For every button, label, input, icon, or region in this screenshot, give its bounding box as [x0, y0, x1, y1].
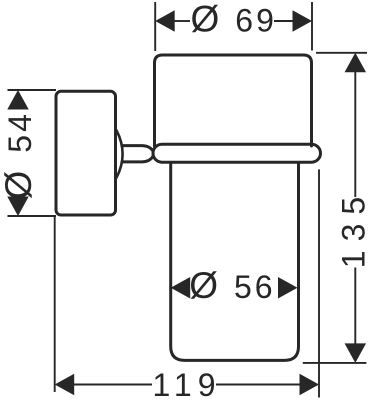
arrow Ø54 bottom	[7, 197, 29, 217]
wall plate	[56, 91, 116, 215]
stem flange arc	[117, 130, 123, 177]
arrow Ø56 left	[171, 277, 191, 299]
extension line right of Ø69	[311, 2, 313, 51]
tumbler upper section (Ø69) outline	[155, 55, 312, 146]
extension line top of Ø54	[8, 89, 57, 91]
dimension line 119 left segment	[74, 384, 153, 386]
extension line right of 119	[318, 169, 320, 397]
svg-text:119: 119	[152, 367, 221, 400]
dimension line 135 lower segment	[354, 268, 356, 344]
arrow 119 right	[300, 374, 320, 396]
dimension line Ø69 left segment	[174, 20, 190, 22]
arrow Ø56 right	[278, 277, 298, 299]
dimension line 135 upper segment	[354, 72, 356, 198]
arrow Ø69 right	[293, 10, 313, 32]
arrow 135 top	[345, 53, 367, 73]
extension line left of 119	[54, 216, 56, 393]
holder ring (stadium profile)	[153, 144, 321, 162]
arrow Ø69 left	[155, 10, 175, 32]
stem top line	[122, 146, 153, 152]
arrow Ø54 top	[7, 90, 29, 110]
svg-text:Ø54: Ø54	[0, 111, 39, 199]
tumbler lower section (Ø56) outline	[171, 164, 299, 361]
extension line bottom of 135	[303, 362, 367, 364]
dimension line 119 right segment	[216, 384, 300, 386]
extension line bottom of Ø54	[8, 215, 57, 217]
arrow 119 left	[55, 374, 74, 396]
svg-text:135: 135	[335, 188, 369, 268]
arrow 135 bottom	[345, 343, 367, 363]
stem bottom line	[122, 156, 153, 162]
svg-text:Ø69: Ø69	[191, 0, 277, 40]
dimension line Ø69 right segment	[274, 20, 293, 22]
extension line top of 135	[316, 52, 367, 54]
svg-text:Ø56: Ø56	[189, 265, 275, 306]
extension line left of Ø69	[154, 2, 156, 51]
